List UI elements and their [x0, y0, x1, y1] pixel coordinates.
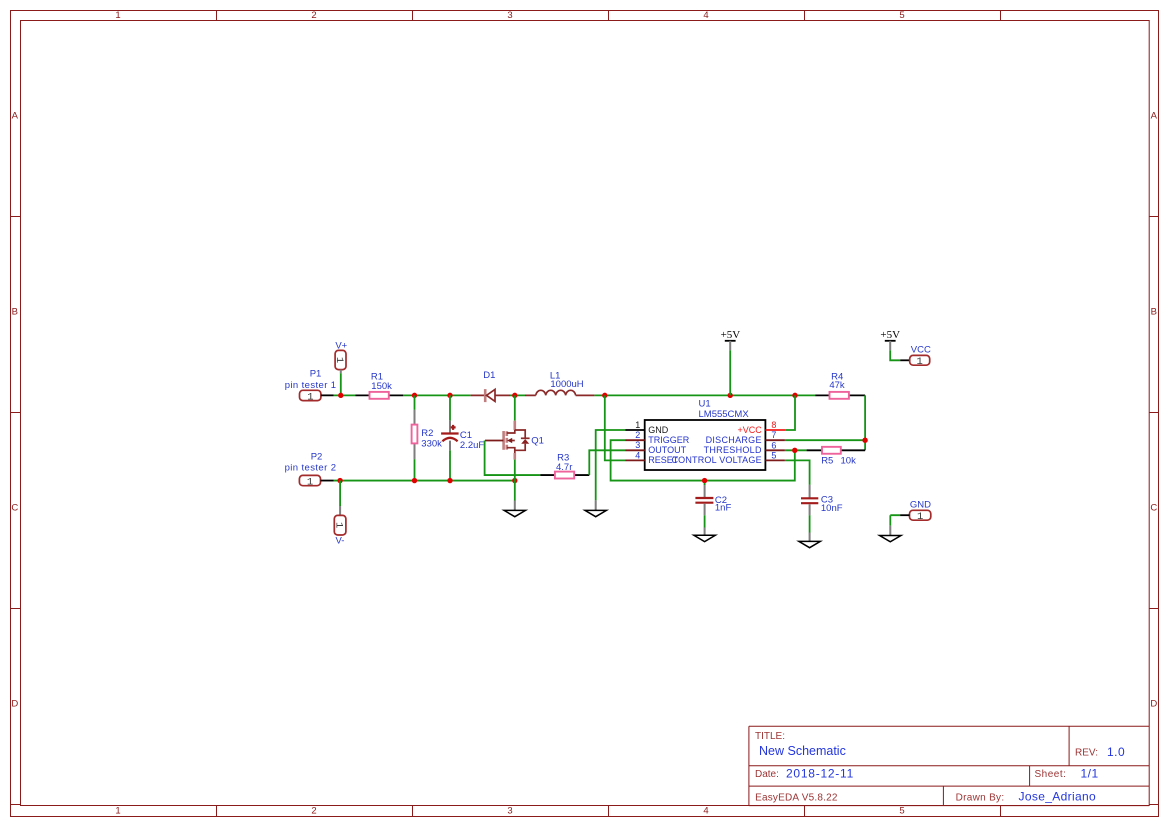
resistor R1	[356, 372, 404, 399]
wire bottom rail P2 net	[334, 480, 515, 482]
capacitor C1	[441, 395, 484, 480]
svg-text:DISCHARGE: DISCHARGE	[706, 435, 762, 445]
connector P2	[285, 452, 337, 489]
svg-text:pin tester 1: pin tester 1	[285, 380, 337, 391]
svg-text:REV:: REV:	[1075, 748, 1098, 759]
wire pin4 to top rail	[605, 395, 626, 460]
svg-text:2.2uF: 2.2uF	[460, 440, 484, 451]
node junction pin6 riser	[792, 448, 797, 453]
svg-text:Date:: Date:	[755, 769, 779, 780]
pin 6 THRESHOLD	[704, 440, 807, 455]
svg-text:330k: 330k	[421, 438, 442, 449]
svg-text:B: B	[12, 307, 18, 318]
svg-text:+5V: +5V	[880, 329, 900, 341]
svg-text:P1: P1	[310, 369, 322, 380]
svg-text:TITLE:: TITLE:	[755, 731, 785, 742]
ground Q1 source	[504, 481, 525, 517]
svg-text:3: 3	[507, 806, 512, 817]
svg-text:1: 1	[333, 357, 345, 363]
power flag +5V at VCC	[880, 329, 900, 360]
svg-text:8: 8	[771, 420, 776, 430]
svg-text:TRIGGER: TRIGGER	[648, 435, 690, 445]
svg-text:GND: GND	[648, 425, 669, 435]
inductor L1	[525, 371, 594, 396]
node junction P1/V+	[338, 393, 343, 398]
svg-text:Sheet:: Sheet:	[1035, 769, 1067, 780]
node junction pin8 riser	[792, 393, 797, 398]
svg-text:150k: 150k	[371, 381, 392, 392]
wire R4 riser	[864, 395, 866, 450]
svg-text:4: 4	[635, 450, 640, 460]
svg-text:4.7r: 4.7r	[556, 462, 572, 473]
node junction +5V	[728, 393, 733, 398]
svg-text:VCC: VCC	[911, 344, 931, 355]
svg-text:Q1: Q1	[531, 436, 544, 447]
svg-text:1nF: 1nF	[715, 503, 732, 514]
op-amp U1 box	[645, 399, 766, 470]
svg-text:New Schematic: New Schematic	[759, 744, 846, 758]
svg-text:THRESHOLD: THRESHOLD	[704, 445, 762, 455]
svg-text:47k: 47k	[829, 380, 845, 391]
svg-text:GND: GND	[910, 500, 931, 511]
node junction R4/pin7	[862, 438, 867, 443]
svg-text:Jose_Adriano: Jose_Adriano	[1019, 789, 1097, 803]
ground C3	[799, 533, 820, 548]
svg-text:OUTOUT: OUTOUT	[648, 445, 686, 455]
node junction L1 right	[602, 393, 607, 398]
svg-text:4: 4	[703, 806, 708, 817]
node junction C2	[702, 478, 707, 483]
connector GND	[890, 500, 931, 526]
pin 2 TRIGGER	[626, 430, 690, 445]
svg-text:3: 3	[507, 10, 512, 21]
connector V-	[332, 481, 346, 547]
svg-text:A: A	[1151, 111, 1158, 122]
resistor R4	[815, 371, 865, 399]
resistor R3	[540, 453, 589, 479]
TITLE BLOCK	[749, 726, 1149, 805]
svg-text:D: D	[11, 699, 18, 710]
svg-text:1: 1	[635, 420, 640, 430]
connector VCC	[900, 344, 931, 368]
svg-text:V+: V+	[335, 340, 347, 351]
svg-text:P2: P2	[311, 452, 323, 463]
svg-text:2: 2	[311, 806, 316, 817]
svg-text:LM555CMX: LM555CMX	[699, 409, 750, 420]
node junction C1 bottom	[447, 478, 452, 483]
ground C2	[694, 528, 715, 542]
pin 8 +VCC	[738, 395, 795, 434]
svg-text:4: 4	[703, 10, 708, 21]
wire top rail green segments	[334, 394, 816, 396]
svg-text:6: 6	[771, 440, 776, 450]
capacitor C2	[695, 483, 731, 528]
node junction R2 top	[412, 393, 417, 398]
svg-text:1000uH: 1000uH	[550, 379, 583, 390]
svg-text:5: 5	[899, 806, 904, 817]
svg-text:1: 1	[307, 391, 313, 403]
ground at GND connector	[880, 526, 901, 542]
svg-text:1: 1	[115, 806, 120, 817]
svg-text:10k: 10k	[841, 456, 857, 467]
svg-text:B: B	[1151, 307, 1157, 318]
pin 4 RESET	[626, 450, 679, 465]
svg-text:V-: V-	[336, 536, 345, 547]
svg-text:pin tester 2: pin tester 2	[285, 463, 337, 474]
svg-text:C: C	[1150, 503, 1157, 514]
svg-text:1: 1	[115, 10, 120, 21]
svg-text:2: 2	[635, 430, 640, 440]
diode D1	[471, 370, 510, 402]
capacitor C3	[801, 485, 843, 533]
connector P1	[285, 369, 337, 404]
svg-text:R5: R5	[821, 455, 833, 466]
svg-text:C: C	[11, 503, 18, 514]
node junction P2/V-	[337, 478, 342, 483]
svg-text:2: 2	[311, 10, 316, 21]
svg-text:1.0: 1.0	[1107, 745, 1125, 759]
svg-text:10nF: 10nF	[821, 503, 843, 514]
svg-text:+VCC: +VCC	[738, 425, 763, 435]
svg-text:D: D	[1150, 699, 1157, 710]
node junction D1/Q1	[512, 393, 517, 398]
wire gate to R3	[485, 441, 541, 476]
power flag +5V at U1	[721, 329, 741, 395]
svg-text:1/1: 1/1	[1081, 766, 1099, 780]
resistor R5	[807, 447, 866, 467]
connector V+	[333, 340, 348, 395]
svg-text:5: 5	[899, 10, 904, 21]
wire pin2 trigger riser	[611, 440, 795, 480]
svg-text:Drawn By:: Drawn By:	[956, 793, 1005, 804]
node junction R2 bottom	[412, 478, 417, 483]
svg-text:1: 1	[332, 522, 344, 528]
pin 1 GND	[626, 420, 669, 435]
pin 7 DISCHARGE	[706, 430, 866, 445]
svg-text:+5V: +5V	[721, 329, 741, 341]
svg-text:EasyEDA V5.8.22: EasyEDA V5.8.22	[755, 793, 838, 804]
pin 5 CONTROL VOLTAGE	[671, 451, 809, 485]
svg-text:5: 5	[771, 451, 776, 461]
svg-text:7: 7	[771, 430, 776, 440]
node junction Q1 source / ground	[512, 478, 517, 483]
svg-text:CONTROL VOLTAGE: CONTROL VOLTAGE	[671, 455, 761, 465]
wire R3 to pin3	[589, 450, 625, 475]
wire pin1 to ground	[596, 430, 626, 500]
resistor R2	[412, 395, 443, 480]
svg-text:3: 3	[635, 440, 640, 450]
ground U1 gnd	[585, 500, 606, 516]
svg-text:2018-12-11: 2018-12-11	[786, 766, 854, 780]
node junction C1 top	[447, 393, 452, 398]
svg-text:D1: D1	[483, 370, 495, 381]
transistor Q1	[485, 395, 544, 480]
svg-text:A: A	[12, 111, 19, 122]
svg-text:1: 1	[917, 356, 923, 368]
svg-text:1: 1	[307, 476, 313, 488]
pin 3 OUTOUT	[626, 440, 687, 455]
svg-text:1: 1	[917, 511, 923, 523]
